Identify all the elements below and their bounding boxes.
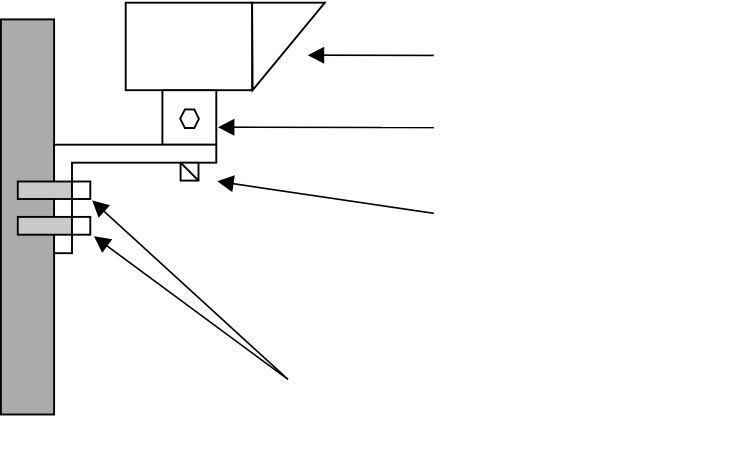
callout arrow 3 head bbox=[217, 175, 235, 192]
callout arrow 5 line (lower bolt) bbox=[106, 245, 288, 379]
callout arrow 4 head bbox=[92, 200, 110, 217]
diagonal in square bbox=[181, 163, 199, 181]
callout arrow 1 line (camera) bbox=[323, 54, 434, 56]
callout arrow 4 line (upper bolt) bbox=[103, 211, 288, 380]
wall bbox=[1, 19, 54, 414]
wall anchor bolt upper (shaft) bbox=[18, 182, 72, 200]
wall anchor bolt lower (head) bbox=[72, 217, 90, 235]
wall anchor bolt lower (shaft) bbox=[18, 217, 72, 235]
callout arrow 2 head bbox=[218, 119, 234, 136]
callout arrow 3 line (safety wire square) bbox=[233, 184, 434, 214]
callout arrow 2 line (bracket) bbox=[233, 126, 433, 128]
hex bolt on bracket bbox=[180, 109, 199, 128]
callout arrow 1 head bbox=[308, 47, 324, 64]
bracket neck bbox=[162, 90, 216, 145]
bracket arm and wall plate bbox=[54, 145, 216, 254]
callout arrow 5 head bbox=[94, 236, 112, 253]
safety-wire square with diagonal bbox=[181, 163, 199, 181]
camera lens hood triangle bbox=[252, 3, 325, 91]
wall anchor bolt upper (head) bbox=[72, 182, 90, 200]
camera body bbox=[126, 3, 252, 91]
